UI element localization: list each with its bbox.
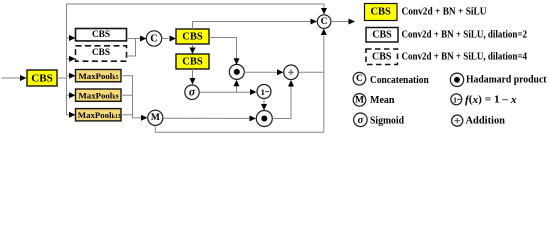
wire CBS dilation4 out [127, 39, 136, 57]
wire MaxPool k9 out to collector [121, 94, 133, 96]
wire sigma to 1-x [200, 91, 251, 93]
wire branch to MaxPool k5 [67, 75, 70, 77]
legend solid CBS box [366, 28, 398, 43]
svg-text:1: 1 [261, 87, 265, 97]
svg-text:k9: k9 [112, 95, 118, 101]
input wire [2, 77, 21, 79]
wire branch to CBS dilation4 [67, 58, 70, 60]
legend dashed CBS box [366, 49, 398, 65]
MaxPool k9 box [76, 89, 122, 101]
one-minus circle [257, 85, 271, 99]
final concat circle [317, 15, 331, 29]
input arrowhead [20, 75, 27, 81]
output wire [331, 21, 349, 23]
wire one-minus down to hadamard bottom [263, 99, 265, 105]
svg-text:CBS: CBS [372, 30, 392, 41]
wire CBS to trunk [57, 77, 67, 79]
wire sigma branch up to hadamard top [236, 86, 238, 92]
wire hadamard top to addition [244, 71, 278, 73]
svg-text:1: 1 [453, 95, 457, 104]
svg-text:CBS: CBS [182, 32, 203, 43]
wire branch to CBS dilation2 [67, 37, 70, 39]
wire CBS mid1 right to hadamard top [209, 38, 237, 59]
legend hadamard symbol [450, 73, 463, 86]
svg-text:Addition: Addition [466, 115, 506, 126]
wire mean to hadamard bottom [163, 117, 250, 119]
svg-text:CBS: CBS [182, 57, 203, 68]
wire mean bottom to final concat [155, 72, 323, 132]
svg-text:Conv2d + BN + SiLU: Conv2d + BN + SiLU [402, 6, 487, 17]
MaxPool k13 box [76, 109, 122, 121]
legend one-minus symbol [451, 94, 462, 105]
wire hadamard bottom up to addition [272, 87, 291, 119]
wire addition up to final concat [298, 36, 324, 73]
svg-text:k5: k5 [112, 75, 118, 81]
wire CBS dilation2 out [127, 38, 141, 40]
mean circle [148, 110, 163, 125]
svg-text:CBS: CBS [31, 73, 52, 85]
wire MaxPool k13 out to collector [121, 114, 133, 116]
legend yellow CBS box [365, 4, 398, 21]
svg-text:CBS: CBS [92, 30, 110, 40]
wire CBS mid2 down to sigma [192, 69, 194, 79]
trunk vertical wire [66, 4, 68, 115]
legend mean symbol [353, 94, 366, 107]
svg-text:σ: σ [189, 87, 196, 99]
svg-text:MaxPool: MaxPool [79, 71, 113, 81]
svg-text:Conv2d + BN + SiLU, dilation=4: Conv2d + BN + SiLU, dilation=4 [402, 52, 528, 63]
svg-text:C: C [150, 34, 158, 45]
svg-text:C: C [321, 17, 328, 27]
CBS input box [27, 70, 57, 86]
wire branch to MaxPool k13 [67, 114, 70, 116]
svg-text:Concatenation: Concatenation [370, 75, 429, 86]
MaxPool k5 box [76, 70, 122, 82]
wire branch to MaxPool k9 [67, 94, 70, 96]
svg-text:Sigmoid: Sigmoid [370, 115, 404, 126]
svg-text:Mean: Mean [370, 95, 395, 106]
wire CBS mid1 to final concat [193, 22, 311, 30]
wire C mid to CBS1 [162, 38, 169, 40]
top wire to final concat [67, 4, 325, 9]
sigma circle [185, 85, 199, 99]
wire MaxPool k5 out to collector [121, 76, 133, 118]
svg-text:MaxPool: MaxPool [78, 110, 112, 120]
svg-text:CBS: CBS [372, 52, 392, 63]
wire CBS mid1 down to CBS mid2 [192, 44, 194, 48]
svg-text:f(x) = 1 – x: f(x) = 1 – x [465, 94, 517, 105]
legend sigmoid symbol [354, 113, 368, 127]
hadamard bottom circle [256, 111, 272, 127]
CBS mid2 box [176, 54, 209, 69]
legend addition symbol [452, 115, 463, 126]
svg-text:C: C [356, 74, 363, 84]
svg-text:Hadamard product: Hadamard product [466, 74, 547, 85]
CBS mid1 box [176, 29, 209, 44]
legend concat symbol [353, 72, 366, 85]
svg-text:MaxPool: MaxPool [79, 91, 113, 101]
svg-text:CBS: CBS [370, 7, 391, 18]
svg-text:M: M [355, 95, 364, 105]
svg-text:Conv2d + BN + SiLU, dilation=2: Conv2d + BN + SiLU, dilation=2 [402, 30, 528, 41]
addition circle [284, 65, 299, 80]
wire collector to mean [133, 117, 142, 119]
svg-text:CBS: CBS [92, 48, 110, 58]
CBS dilation4 box (dashed) [76, 46, 127, 61]
svg-text:M: M [151, 113, 160, 123]
CBS dilation2 box [76, 29, 127, 41]
hadamard top circle [229, 64, 244, 79]
svg-text:σ: σ [358, 115, 364, 126]
svg-text:k13: k13 [112, 114, 121, 120]
concat circle C mid [146, 31, 161, 46]
